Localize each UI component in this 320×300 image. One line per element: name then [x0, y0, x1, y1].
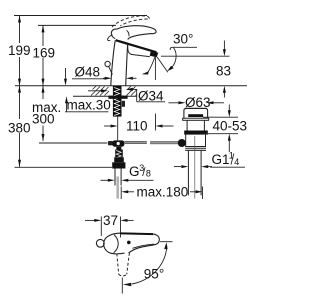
drain waste collar gasket: [184, 131, 208, 135]
mounting washer horseshoe: [108, 96, 127, 99]
wire 83 top extension from aerator: [161, 55, 230, 57]
wire extension line 380 bottom (hose end): [15, 166, 113, 168]
dim max.30 lower arrow and text: [66, 103, 68, 112]
drain rod ball joint: [178, 139, 186, 147]
pull rod lower end: [122, 101, 125, 107]
spout direction line: [157, 57, 168, 72]
rod end cap: [108, 141, 113, 145]
dim 40-53: [200, 105, 247, 153]
drain waste: Ø63 label: [169, 95, 225, 110]
wire 30deg horizontal reference: [170, 47, 197, 50]
faucet column right edge: [126, 45, 128, 86]
svg-text:380: 380: [8, 121, 31, 136]
wire extension line (169 ref): [38, 24, 116, 26]
svg-text:110: 110: [126, 119, 148, 134]
lever neck inner line: [127, 30, 129, 36]
label Ø48 with leader: [72, 65, 137, 80]
node dim 199: [8, 16, 31, 86]
top view handle outline: [121, 233, 160, 253]
drain waste cap dark band: [188, 114, 203, 117]
drain waste plug cap: [184, 108, 208, 118]
faucet column left edge: [111, 40, 116, 85]
dim 37: [85, 213, 134, 238]
label G3/8: [101, 163, 154, 182]
svg-text:40-53: 40-53: [213, 119, 248, 134]
deck hatching right: [127, 86, 138, 96]
svg-text:83: 83: [216, 64, 231, 79]
svg-text:G1: G1: [212, 152, 230, 167]
dim 83: [216, 41, 231, 98]
top view body pivot: [104, 233, 125, 254]
aerator tip: [150, 52, 159, 57]
angle arc 30deg: [170, 48, 177, 70]
svg-text:199: 199: [8, 43, 31, 58]
wire aerator projection line to drain: [154, 57, 156, 80]
dim max.30 upper arrow: [65, 68, 67, 79]
top view cap inner arc: [114, 235, 119, 253]
deck counter bottom line: [73, 95, 137, 97]
deck hatching left: [91, 86, 109, 96]
top view dark dot: [127, 241, 131, 245]
svg-text:4: 4: [234, 157, 239, 167]
wire extension line max300 bottom: [39, 142, 107, 144]
drain centerline: [194, 136, 196, 199]
angle arc 95deg: [132, 246, 167, 284]
faucet body flare left: [107, 35, 112, 41]
svg-text:G: G: [129, 164, 140, 179]
threaded shank below deck: [113, 86, 122, 117]
popup rod horizontal: [110, 141, 179, 144]
node dim 380: [8, 86, 31, 167]
wire extension below dashed lever: [121, 278, 123, 294]
svg-text:Ø34: Ø34: [138, 89, 164, 104]
svg-text:95°: 95°: [144, 267, 164, 282]
svg-text:169: 169: [33, 46, 56, 61]
svg-text:Ø63: Ø63: [185, 95, 211, 110]
dim max.180: [121, 185, 202, 200]
svg-text:37: 37: [103, 213, 118, 228]
rod coupling at hose: [112, 140, 124, 146]
node dim 169: [33, 25, 56, 85]
top view handle inner line: [133, 244, 155, 248]
lever swung dashed: [117, 254, 119, 275]
svg-text:8: 8: [146, 169, 151, 179]
drain waste lower body: [186, 135, 206, 147]
lever raised position dashed: [112, 16, 147, 27]
faucet lever handle: [111, 29, 117, 39]
drain waste flange: [183, 118, 209, 120]
top view knob: [96, 239, 104, 247]
deck counter top line: [15, 85, 247, 87]
wire extension line top (199 ref): [14, 15, 147, 17]
svg-text:max.30: max.30: [67, 98, 111, 113]
flexible hose gray: [116, 177, 119, 199]
spout top edge thick: [116, 40, 157, 52]
drain tailpipe: [188, 151, 201, 196]
supply tube outline: [115, 169, 121, 186]
wire extension from lever tip: [160, 241, 173, 243]
svg-text:max.180: max.180: [137, 185, 189, 200]
svg-text:30°: 30°: [173, 32, 193, 47]
dim 110: [104, 114, 174, 134]
svg-text:Ø48: Ø48: [75, 65, 101, 80]
hose fitting threaded: [116, 147, 121, 150]
svg-text:300: 300: [32, 111, 55, 126]
drain waste upper body: [187, 120, 204, 130]
label G1 1/4: [174, 150, 245, 168]
water stream curved arrow: [148, 57, 155, 73]
label Ø34 with leader arrows: [88, 88, 165, 104]
drain waste union rings: [185, 146, 206, 148]
hose hex nut: [112, 162, 125, 168]
spout underside: [128, 45, 150, 56]
hose centerline below shank: [117, 117, 119, 141]
node dim max300: [32, 86, 61, 141]
pull rod knob: [105, 61, 110, 66]
